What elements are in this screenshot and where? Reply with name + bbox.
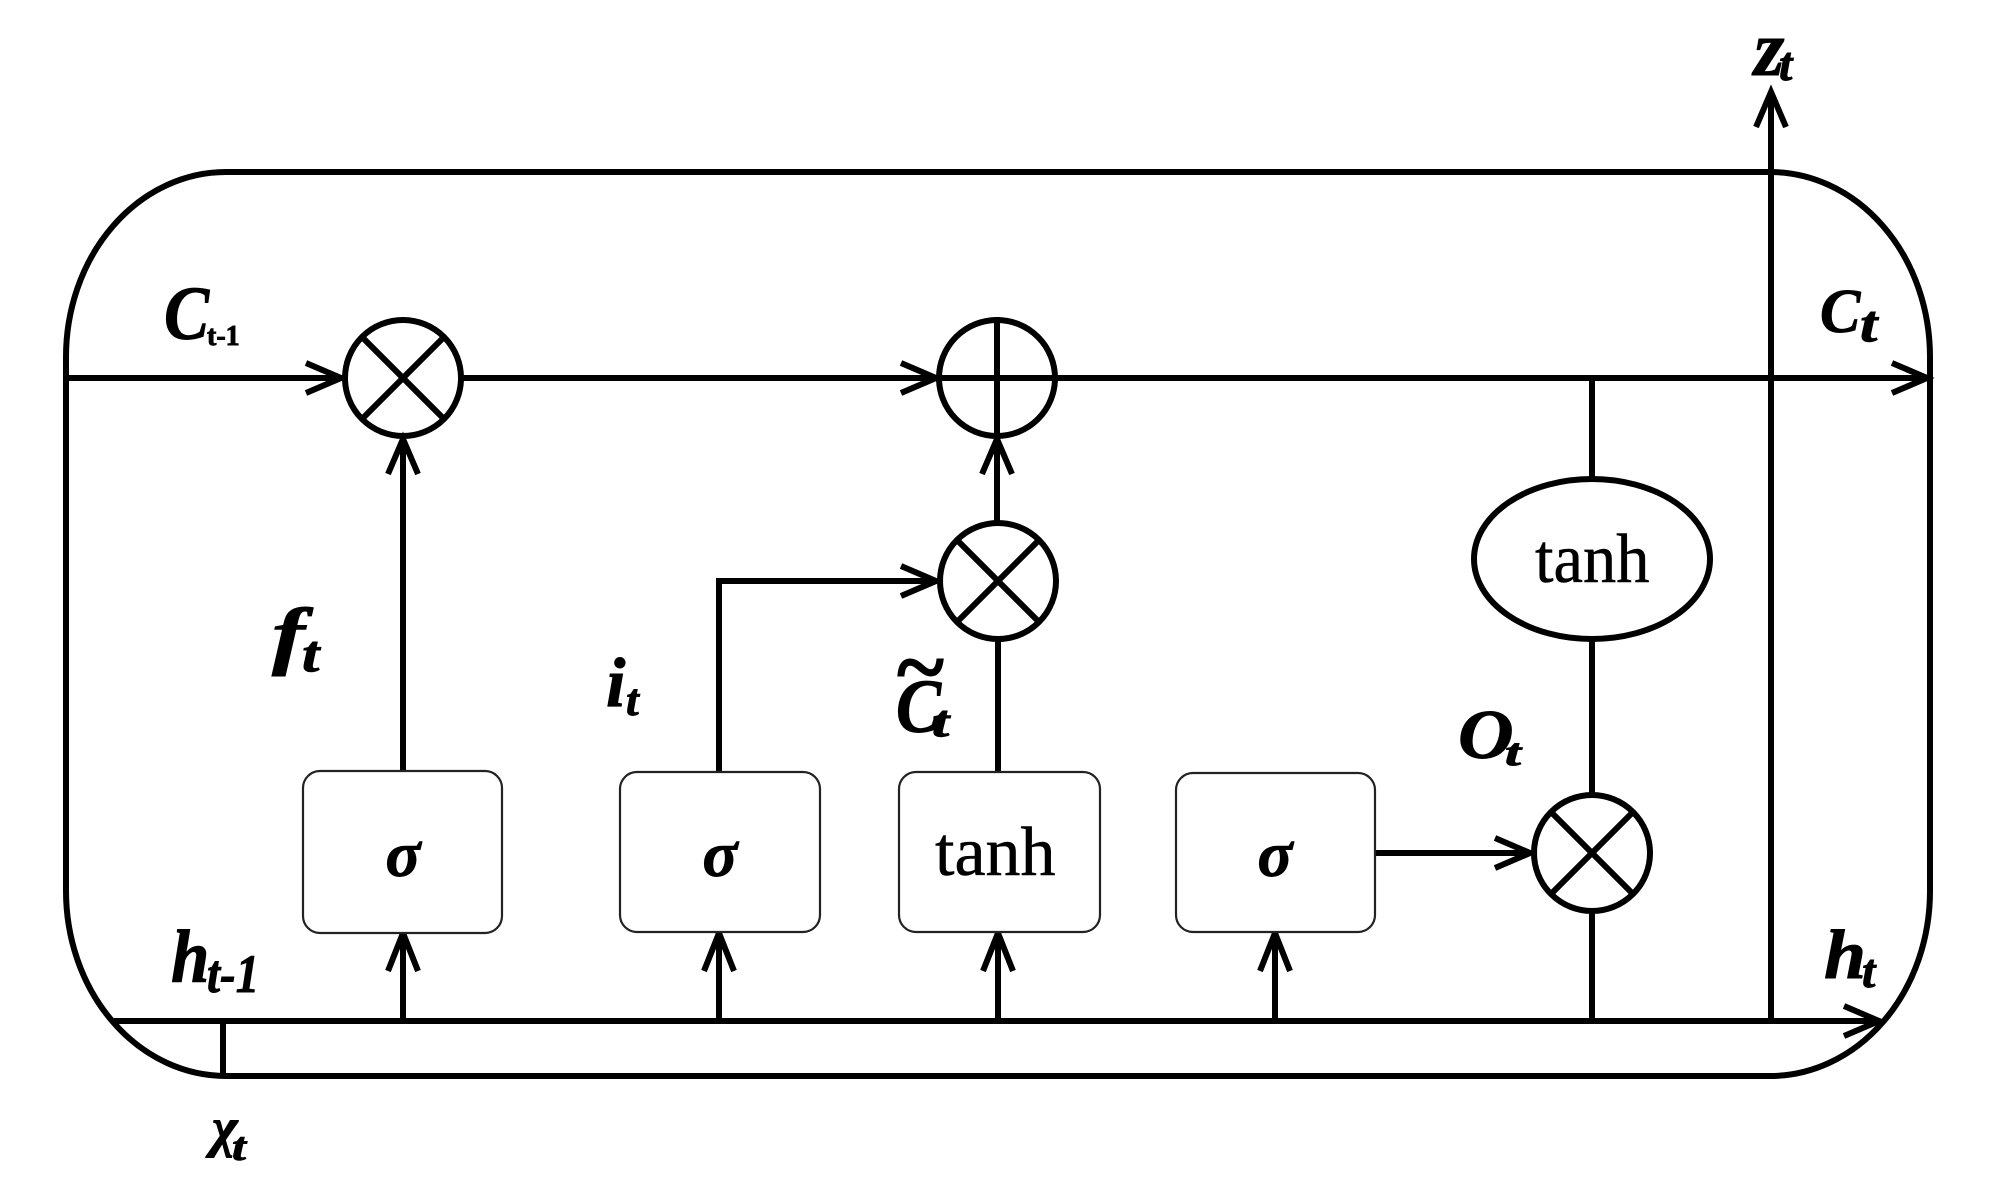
multiply node M2 (input gate product)	[940, 523, 1056, 639]
wire: box B4 to M3	[1375, 850, 1530, 856]
svg-text:tanh: tanh	[935, 814, 1056, 891]
svg-text:t: t	[932, 697, 952, 746]
wire: ellipse E1 down to multiply node M3	[1589, 639, 1595, 794]
wire: M2 down to tanh box B3	[995, 639, 1001, 772]
arrowhead z_t pointing up	[1756, 92, 1786, 127]
arrowhead into M1 from below	[388, 439, 418, 474]
svg-text:t: t	[1862, 945, 1877, 998]
wire: h line (hidden state)	[114, 1018, 1879, 1024]
svg-text:C: C	[1820, 277, 1861, 346]
svg-text:t: t	[232, 1125, 247, 1169]
svg-text:t: t	[626, 674, 640, 725]
svg-text:tanh: tanh	[1535, 519, 1649, 597]
gate box B4 (output gate sigma)	[1176, 773, 1375, 932]
svg-text:t: t	[1505, 732, 1523, 774]
wire: C line (cell state) from left edge to right edge	[66, 375, 1928, 381]
arrowhead: h_t output	[1844, 1006, 1879, 1036]
svg-text:C: C	[164, 271, 210, 356]
gate box B3 (candidate tanh)	[899, 772, 1100, 932]
svg-text:t-1: t-1	[207, 321, 240, 352]
node: junction on C line to tanh ellipse	[1589, 378, 1595, 478]
svg-text:t-1: t-1	[207, 944, 259, 1004]
arrowhead: C_t output at right edge	[1892, 363, 1927, 393]
svg-text:t: t	[1860, 296, 1880, 353]
wire: input arrows from h line into the four gate boxes	[400, 933, 406, 1021]
svg-text:t: t	[302, 626, 322, 683]
gate box B2 (input gate sigma)	[620, 772, 820, 932]
add node A1 (cell state sum)	[939, 320, 1055, 436]
svg-text:σ: σ	[1257, 819, 1294, 891]
gate box B1 (forget gate sigma)	[303, 771, 502, 933]
arrowhead into A1 from below	[982, 439, 1012, 474]
arrowhead into M3 from left	[1495, 838, 1530, 868]
multiply node M3 (output gate product)	[1534, 795, 1650, 911]
svg-text:h: h	[1824, 916, 1866, 994]
arrowhead into add node A1	[901, 363, 936, 393]
wire: M3 down to h line	[1589, 911, 1595, 1021]
arrowhead into M2 from left	[901, 566, 936, 596]
svg-text:h: h	[171, 915, 209, 998]
arrowhead into multiply node M1	[306, 363, 341, 393]
svg-text:t: t	[1779, 38, 1794, 91]
multiply node M1 (forget gate product)	[345, 320, 461, 436]
wire: f_t from box B1 up to M1	[400, 440, 406, 771]
LSTM cell body (rounded rectangle)	[66, 172, 1930, 1076]
svg-text:σ: σ	[702, 819, 739, 891]
wire: vertical through A1 down to multiply node M2	[994, 317, 1000, 521]
svg-text:i: i	[606, 645, 626, 722]
tanh ellipse E1	[1474, 479, 1710, 639]
wire: z_t vertical line	[1768, 92, 1774, 1021]
wire: i_t elbow from box B2 to M2	[719, 581, 936, 772]
wire: x_t tick from bottom edge up to h line	[220, 1021, 226, 1076]
svg-text:σ: σ	[385, 819, 422, 891]
